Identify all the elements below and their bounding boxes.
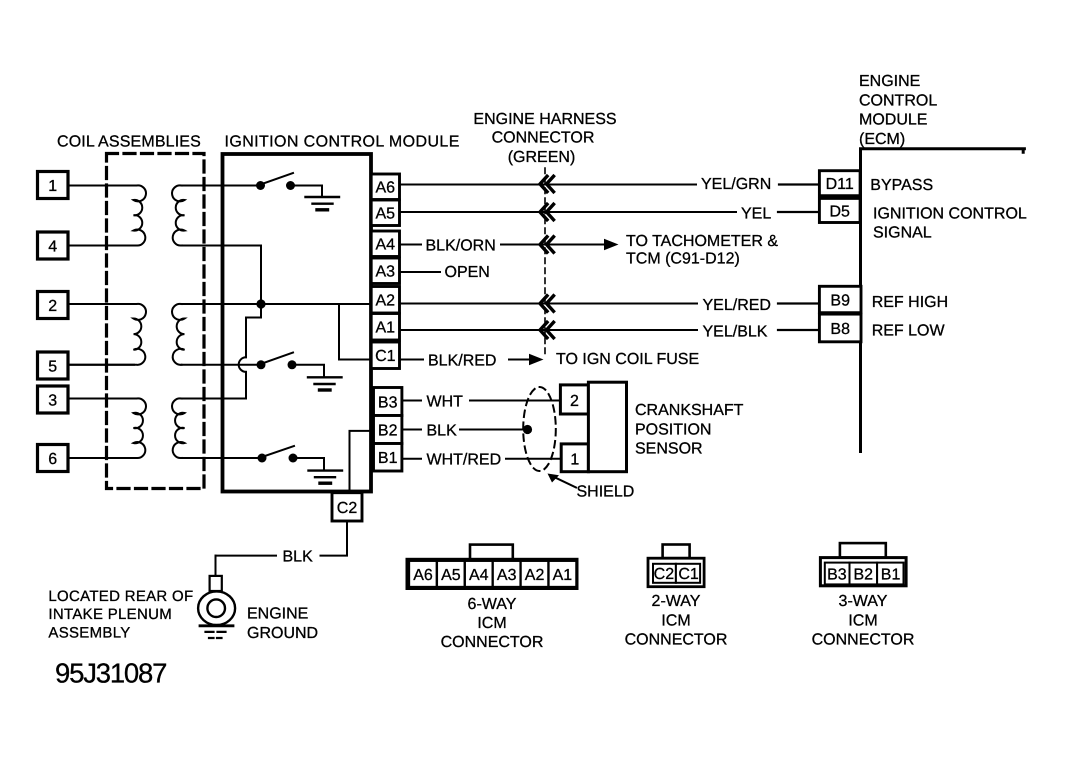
svg-text:BLK: BLK bbox=[427, 422, 458, 439]
ground (SW1) bbox=[306, 197, 340, 210]
svg-text:ENGINE HARNESS: ENGINE HARNESS bbox=[473, 111, 616, 128]
3-way cell B1 bbox=[877, 563, 903, 585]
terminal box 4 bbox=[38, 232, 69, 259]
svg-text:YEL/BLK: YEL/BLK bbox=[703, 323, 768, 340]
pin B3 bbox=[374, 388, 402, 416]
svg-text:BLK/ORN: BLK/ORN bbox=[426, 237, 496, 254]
coil T3 secondary winding bbox=[172, 398, 184, 458]
wire branch to C1 bbox=[339, 304, 372, 360]
svg-text:SIGNAL: SIGNAL bbox=[873, 224, 932, 241]
6-way ICM connector tab bbox=[470, 545, 513, 560]
terminal box 6 bbox=[38, 445, 69, 472]
6-way ICM connector shell bbox=[407, 559, 577, 588]
svg-text:C1: C1 bbox=[375, 348, 396, 365]
svg-text:SENSOR: SENSOR bbox=[635, 441, 703, 458]
svg-text:6-WAY: 6-WAY bbox=[468, 596, 517, 613]
connector chevron A1 bbox=[540, 322, 554, 337]
coil assemblies dashed enclosure bbox=[107, 154, 205, 489]
switch SW3 bbox=[258, 446, 298, 463]
ECM pin D11 bbox=[819, 171, 860, 196]
arrowhead to tachometer bbox=[604, 239, 619, 251]
wire box5 to coil T2 primary bbox=[68, 364, 134, 366]
ECM pin B8 bbox=[819, 314, 861, 342]
svg-text:BYPASS: BYPASS bbox=[870, 177, 933, 194]
pin C1 bbox=[371, 342, 399, 369]
6-way cell A2 bbox=[521, 561, 549, 587]
svg-text:A1: A1 bbox=[376, 320, 396, 337]
pin B1 bbox=[374, 444, 402, 472]
svg-text:5: 5 bbox=[48, 359, 57, 376]
svg-text:LOCATED REAR OF: LOCATED REAR OF bbox=[48, 588, 193, 605]
pin A5 bbox=[371, 200, 399, 226]
svg-text:CONNECTOR: CONNECTOR bbox=[441, 634, 544, 651]
coil T2 primary winding bbox=[68, 304, 146, 365]
label LOCATED REAR OF INTAKE PLENUM ASSEMBLY bbox=[48, 588, 193, 642]
terminal box 1 bbox=[38, 172, 69, 199]
label ENGINE GROUND bbox=[247, 605, 318, 642]
svg-text:B9: B9 bbox=[830, 292, 850, 309]
ignition control module box U1 bbox=[223, 154, 372, 492]
svg-text:D11: D11 bbox=[826, 176, 854, 193]
svg-text:ENGINE: ENGINE bbox=[247, 605, 308, 622]
svg-text:WHT/RED: WHT/RED bbox=[427, 452, 502, 469]
switch SW1 bbox=[256, 173, 295, 190]
svg-text:ICM: ICM bbox=[477, 615, 506, 632]
coil T2 secondary winding bbox=[172, 304, 184, 365]
svg-text:YEL/GRN: YEL/GRN bbox=[701, 176, 771, 193]
svg-text:INTAKE PLENUM: INTAKE PLENUM bbox=[48, 606, 172, 623]
shield arrow bbox=[553, 477, 576, 488]
svg-text:MODULE: MODULE bbox=[859, 112, 927, 129]
label 3-WAY ICM CONNECTOR bbox=[812, 593, 915, 649]
terminal box 5 bbox=[38, 352, 69, 379]
pin A4 bbox=[371, 231, 399, 257]
label 2-WAY ICM CONNECTOR bbox=[625, 593, 728, 649]
svg-text:YEL/RED: YEL/RED bbox=[703, 297, 771, 314]
svg-text:OPEN: OPEN bbox=[445, 264, 490, 281]
svg-text:CONNECTOR: CONNECTOR bbox=[492, 130, 595, 147]
svg-text:ASSEMBLY: ASSEMBLY bbox=[48, 625, 130, 642]
pin A3 bbox=[371, 258, 399, 284]
pin A6 bbox=[371, 174, 399, 200]
arrowhead to ign coil fuse bbox=[529, 354, 544, 366]
svg-text:TO IGN COIL FUSE: TO IGN COIL FUSE bbox=[556, 351, 699, 368]
wire A3 OPEN stub bbox=[400, 271, 441, 273]
svg-text:SHIELD: SHIELD bbox=[577, 484, 635, 501]
wire C1 (BLK/RED) to ign coil fuse bbox=[400, 359, 424, 361]
svg-text:3-WAY: 3-WAY bbox=[839, 593, 888, 610]
terminal box 2 bbox=[38, 292, 69, 319]
switch SW2 bbox=[257, 353, 297, 370]
svg-text:ICM: ICM bbox=[661, 613, 690, 630]
shield connection dot bbox=[523, 425, 532, 434]
3-way ICM connector shell bbox=[820, 558, 906, 586]
label CRANKSHAFT POSITION SENSOR bbox=[635, 402, 744, 458]
svg-text:YEL: YEL bbox=[741, 205, 771, 222]
ECM outline bracket bbox=[861, 149, 1025, 452]
3-way ICM connector tab bbox=[840, 543, 886, 558]
wire T1 secondary top to SW1 bbox=[182, 185, 259, 187]
svg-text:B8: B8 bbox=[830, 321, 850, 338]
svg-text:A3: A3 bbox=[376, 264, 396, 281]
svg-text:A3: A3 bbox=[497, 567, 517, 584]
shield dashed ellipse bbox=[523, 387, 556, 471]
svg-text:B2: B2 bbox=[378, 423, 398, 440]
wire common down to T3 top bbox=[245, 372, 247, 399]
svg-text:REF HIGH: REF HIGH bbox=[872, 294, 948, 311]
svg-text:ENGINE: ENGINE bbox=[859, 73, 920, 90]
6-way cell A1 bbox=[549, 561, 577, 587]
6-way cell A5 bbox=[437, 561, 465, 587]
wire box6 to coil T3 primary bbox=[68, 457, 134, 459]
coil T1 secondary winding bbox=[172, 185, 184, 245]
svg-text:GROUND: GROUND bbox=[247, 625, 318, 642]
svg-text:B1: B1 bbox=[378, 450, 398, 467]
coil T1 primary winding bbox=[68, 185, 146, 245]
svg-text:A4: A4 bbox=[376, 237, 396, 254]
svg-text:1: 1 bbox=[570, 452, 579, 469]
wire SW2 to ground bbox=[296, 365, 324, 377]
wire A5 to D5 (YEL) bbox=[400, 211, 737, 213]
wire T2 secondary top to junction node bbox=[182, 303, 262, 305]
2-way cell C1 bbox=[676, 564, 700, 583]
svg-text:ICM: ICM bbox=[848, 613, 877, 630]
connector chevron A6 bbox=[540, 176, 554, 191]
pin B2 bbox=[374, 416, 402, 444]
svg-text:95J31087: 95J31087 bbox=[55, 658, 166, 689]
svg-text:A2: A2 bbox=[525, 567, 545, 584]
ground (SW3) bbox=[309, 471, 343, 484]
label: ENGINE CONTROL MODULE (ECM) bbox=[859, 73, 937, 148]
terminal box 3 bbox=[38, 386, 69, 413]
wire B3 (WHT) to sensor pin 2 bbox=[402, 400, 421, 402]
svg-text:IGNITION CONTROL MODULE: IGNITION CONTROL MODULE bbox=[225, 134, 460, 151]
wire SW1 to ground bbox=[295, 186, 323, 198]
svg-text:C2: C2 bbox=[337, 500, 358, 517]
svg-text:6: 6 bbox=[48, 451, 57, 468]
pin C2 bbox=[332, 493, 362, 521]
svg-text:BLK: BLK bbox=[283, 548, 314, 565]
wire A1 to B8 (YEL/BLK) bbox=[400, 329, 698, 331]
wire hop over T2 wire bbox=[239, 357, 246, 372]
svg-text:C2: C2 bbox=[654, 566, 675, 583]
svg-text:3: 3 bbox=[48, 393, 57, 410]
engine ground symbol bbox=[198, 576, 235, 638]
6-way cell A4 bbox=[465, 561, 493, 587]
svg-text:2-WAY: 2-WAY bbox=[652, 593, 701, 610]
wire T3 secondary bottom to SW3 bbox=[182, 457, 261, 459]
wire T1 secondary bottom to junction bbox=[182, 246, 262, 302]
svg-text:COIL ASSEMBLIES: COIL ASSEMBLIES bbox=[57, 134, 201, 151]
svg-text:A1: A1 bbox=[553, 567, 573, 584]
wire SW3 to ground bbox=[297, 458, 324, 470]
crankshaft sensor pin 2 box bbox=[560, 385, 588, 414]
wire A4 (BLK/ORN) to tachometer bbox=[400, 244, 422, 246]
2-way cell C2 bbox=[653, 564, 676, 583]
connector chevron A5 bbox=[540, 204, 554, 219]
wire T3 secondary top to common vertical bbox=[182, 398, 247, 400]
ground (SW2) bbox=[308, 377, 342, 390]
wire C2 to engine ground (BLK) bbox=[321, 521, 348, 556]
svg-text:B3: B3 bbox=[378, 395, 398, 412]
svg-text:4: 4 bbox=[48, 239, 57, 256]
junction node (coil common) bbox=[256, 299, 265, 308]
2-way ICM connector shell bbox=[648, 558, 704, 587]
pin A1 bbox=[371, 314, 399, 341]
label IGNITION CONTROL SIGNAL bbox=[873, 206, 1027, 242]
wire B2 to C2 inside ICM bbox=[350, 431, 372, 494]
coil T3 primary winding bbox=[68, 398, 146, 458]
connector chevron A4 bbox=[540, 237, 554, 252]
svg-text:B3: B3 bbox=[827, 566, 847, 583]
wire T2 secondary bottom to SW2 bbox=[182, 364, 260, 366]
svg-text:(ECM): (ECM) bbox=[859, 131, 905, 148]
6-way cell A6 bbox=[409, 561, 437, 587]
svg-text:POSITION: POSITION bbox=[635, 422, 711, 439]
svg-text:A6: A6 bbox=[413, 567, 433, 584]
wire A6 to D11 (YEL/GRN) bbox=[400, 184, 697, 186]
crankshaft sensor body bbox=[588, 382, 626, 472]
svg-text:CONNECTOR: CONNECTOR bbox=[625, 632, 728, 649]
wire B1 (WHT/RED) to sensor pin 1 bbox=[402, 458, 421, 460]
crankshaft sensor pin 1 box bbox=[561, 444, 588, 472]
svg-text:A5: A5 bbox=[376, 206, 396, 223]
label TO TACHOMETER & TCM (C91-D12) bbox=[626, 233, 778, 267]
svg-text:CONTROL: CONTROL bbox=[859, 92, 937, 109]
ECM pin D5 bbox=[819, 198, 860, 222]
wire junction to A2 bbox=[261, 303, 372, 305]
svg-text:CONNECTOR: CONNECTOR bbox=[812, 632, 915, 649]
svg-text:D5: D5 bbox=[829, 203, 850, 220]
svg-text:TCM (C91-D12): TCM (C91-D12) bbox=[626, 250, 740, 267]
svg-text:REF LOW: REF LOW bbox=[872, 322, 946, 339]
svg-text:2: 2 bbox=[48, 298, 57, 315]
svg-text:BLK/RED: BLK/RED bbox=[428, 352, 496, 369]
2-way ICM connector tab bbox=[663, 545, 690, 559]
label 6-WAY ICM CONNECTOR bbox=[441, 596, 544, 651]
wire box4 to coil T1 primary bbox=[68, 245, 134, 247]
svg-text:IGNITION CONTROL: IGNITION CONTROL bbox=[873, 206, 1027, 223]
ECM pin B9 bbox=[819, 286, 861, 312]
svg-text:A5: A5 bbox=[441, 567, 461, 584]
svg-text:CRANKSHAFT: CRANKSHAFT bbox=[635, 402, 744, 419]
wire A2 to B9 (YEL/RED) bbox=[400, 303, 698, 305]
svg-text:WHT: WHT bbox=[427, 393, 464, 410]
svg-text:B2: B2 bbox=[854, 566, 874, 583]
wire B2 (BLK) to shield bbox=[402, 429, 421, 431]
svg-text:A2: A2 bbox=[376, 293, 396, 310]
pin A2 bbox=[371, 287, 399, 314]
connector chevron A2 bbox=[540, 296, 554, 311]
svg-text:B1: B1 bbox=[881, 566, 901, 583]
svg-text:A4: A4 bbox=[469, 567, 489, 584]
6-way cell A3 bbox=[493, 561, 521, 587]
harness connector dashed line bbox=[544, 168, 546, 355]
wire junction common drop bbox=[246, 304, 261, 357]
svg-text:(GREEN): (GREEN) bbox=[508, 149, 576, 166]
svg-text:C1: C1 bbox=[678, 566, 699, 583]
label: ENGINE HARNESS CONNECTOR (GREEN) bbox=[473, 111, 616, 166]
svg-text:1: 1 bbox=[48, 178, 57, 195]
svg-text:TO TACHOMETER &: TO TACHOMETER & bbox=[626, 233, 778, 250]
svg-text:2: 2 bbox=[570, 393, 579, 410]
svg-text:A6: A6 bbox=[376, 180, 396, 197]
3-way cell B2 bbox=[850, 563, 878, 585]
3-way cell B3 bbox=[825, 563, 850, 585]
